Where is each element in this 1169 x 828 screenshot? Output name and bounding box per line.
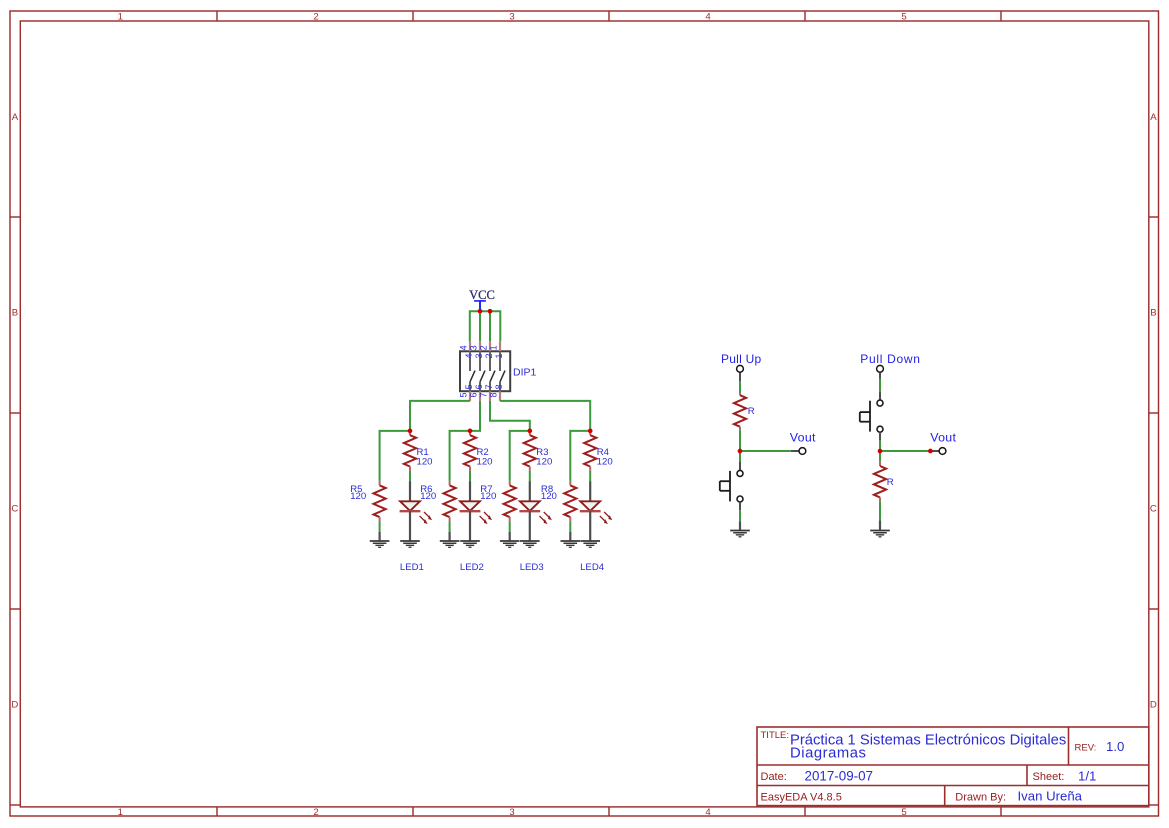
svg-text:5: 5 xyxy=(459,392,469,397)
junction node4 xyxy=(588,429,593,434)
wire R4 to LED4 xyxy=(589,471,591,481)
wire R1 to LED1 xyxy=(409,471,411,481)
push button (pull-down) xyxy=(860,400,883,432)
DIP1 pin numbers top (4 3 2 1) xyxy=(459,345,504,358)
wire pin6 to node2 xyxy=(450,401,480,481)
ground R7 xyxy=(509,532,511,541)
terminal pin Pull Up xyxy=(737,365,744,381)
svg-text:DIP1: DIP1 xyxy=(513,367,537,379)
svg-text:1: 1 xyxy=(118,12,123,23)
svg-text:2: 2 xyxy=(479,345,489,350)
svg-text:3: 3 xyxy=(509,807,514,818)
wire node3 to R7 xyxy=(510,431,530,481)
wire node1 to R5 xyxy=(380,431,410,481)
label R6 value 120 xyxy=(420,484,436,502)
push button (pull-up) xyxy=(720,470,743,502)
power flag VCC xyxy=(469,288,495,311)
svg-text:1: 1 xyxy=(489,345,499,350)
svg-text:2: 2 xyxy=(313,807,318,818)
wire Vout (pull-up) xyxy=(740,450,791,452)
ground R8 xyxy=(569,532,571,541)
terminal pin Pull Down xyxy=(877,365,884,378)
svg-text:5: 5 xyxy=(901,807,906,818)
ground LED2 xyxy=(460,540,480,542)
svg-text:C: C xyxy=(1150,504,1157,515)
ground (pull-down) xyxy=(879,520,881,530)
wire button to ground (pull-up) xyxy=(739,502,741,521)
wire R3 to LED3 xyxy=(529,471,531,481)
svg-text:7: 7 xyxy=(484,384,494,389)
svg-text:A: A xyxy=(1150,112,1157,123)
wire R6 to ground xyxy=(449,521,451,531)
resistor R (pull-down) xyxy=(874,461,886,501)
svg-text:120: 120 xyxy=(480,491,496,502)
svg-text:120: 120 xyxy=(417,457,433,468)
wire R5 to ground xyxy=(379,521,381,531)
resistor R8 xyxy=(564,481,576,521)
svg-text:VCC: VCC xyxy=(469,288,495,302)
resistor R4 xyxy=(584,431,596,471)
junction VCC bus B xyxy=(488,309,493,314)
wire VCC drop pin1 xyxy=(499,310,501,341)
svg-text:120: 120 xyxy=(597,457,613,468)
LED LED2 xyxy=(460,481,493,541)
junction VCC bus A xyxy=(478,309,483,314)
label R1 value 120 xyxy=(417,447,433,468)
wire pin5 to node1 xyxy=(410,401,470,431)
svg-text:Vout: Vout xyxy=(930,430,956,444)
label R7 value 120 xyxy=(480,484,496,502)
resistor R (pull-up) xyxy=(734,393,746,431)
svg-text:6: 6 xyxy=(474,384,484,389)
LED LED4 xyxy=(580,481,613,541)
wire R2 to LED2 xyxy=(469,471,471,481)
svg-text:Vout: Vout xyxy=(790,430,816,444)
svg-text:B: B xyxy=(12,308,18,319)
label R8 value 120 xyxy=(541,484,557,502)
svg-text:8: 8 xyxy=(489,392,499,397)
terminal pin Vout (pull-up) xyxy=(791,448,806,455)
svg-text:Pull Up: Pull Up xyxy=(721,352,762,366)
wire R to Vout node xyxy=(739,430,741,451)
svg-text:Date:: Date: xyxy=(761,771,787,783)
junction Vout node (pull-down) xyxy=(878,449,883,454)
svg-text:4: 4 xyxy=(705,12,711,23)
svg-text:R: R xyxy=(748,406,755,417)
wire node to button (pull-up) xyxy=(739,453,741,470)
svg-text:EasyEDA V4.8.5: EasyEDA V4.8.5 xyxy=(761,792,842,804)
svg-text:4: 4 xyxy=(705,807,711,818)
svg-text:2: 2 xyxy=(313,12,318,23)
svg-text:LED2: LED2 xyxy=(460,562,484,573)
resistor R5 xyxy=(374,481,386,521)
junction Vout node (pull-up) xyxy=(738,449,743,454)
DIP1 pin numbers bottom (5 6 7 8) xyxy=(459,384,504,397)
label R4 value 120 xyxy=(597,447,613,468)
wire Vout (pull-down) xyxy=(880,450,930,452)
svg-text:4: 4 xyxy=(464,353,474,358)
svg-text:Ivan Ureña: Ivan Ureña xyxy=(1018,789,1083,804)
ground LED1 xyxy=(400,540,420,542)
resistor R6 xyxy=(444,481,456,521)
junction node1 xyxy=(408,429,413,434)
svg-text:2: 2 xyxy=(484,353,494,358)
dip switch DIP1 xyxy=(460,341,510,401)
svg-text:B: B xyxy=(1150,308,1156,319)
svg-text:Drawn By:: Drawn By: xyxy=(955,792,1006,804)
svg-text:LED1: LED1 xyxy=(400,562,424,573)
svg-text:3: 3 xyxy=(474,353,484,358)
wire Pull Down to button xyxy=(879,379,881,400)
svg-text:REV:: REV: xyxy=(1075,743,1097,754)
ground (pull-up) xyxy=(739,521,741,530)
label R5 value 120 xyxy=(350,484,366,502)
ground R6 xyxy=(449,532,451,541)
svg-text:Pull Down: Pull Down xyxy=(860,352,920,366)
svg-text:C: C xyxy=(11,504,18,515)
resistor R2 xyxy=(464,431,476,471)
wire node4 to R8 xyxy=(570,431,590,481)
LED LED3 xyxy=(519,481,552,541)
label R3 value 120 xyxy=(536,447,552,468)
wire node to R (pull-down) xyxy=(879,453,881,461)
svg-text:120: 120 xyxy=(541,491,557,502)
wire R7 to ground xyxy=(509,521,511,531)
svg-text:3: 3 xyxy=(509,12,514,23)
svg-text:4: 4 xyxy=(459,345,469,350)
svg-text:R: R xyxy=(887,477,894,488)
svg-text:1: 1 xyxy=(118,807,123,818)
wire pin8 to node4 xyxy=(500,401,590,431)
LED LED1 xyxy=(400,481,433,541)
svg-text:5: 5 xyxy=(901,12,906,23)
wire VCC drop pin2 xyxy=(489,311,491,341)
svg-text:6: 6 xyxy=(469,392,479,397)
svg-text:7: 7 xyxy=(479,392,489,397)
svg-text:120: 120 xyxy=(477,457,493,468)
svg-text:1.0: 1.0 xyxy=(1106,739,1124,754)
wire R8 to ground xyxy=(569,521,571,531)
svg-text:Sheet:: Sheet: xyxy=(1033,771,1065,783)
svg-text:D: D xyxy=(11,699,18,710)
svg-text:3: 3 xyxy=(469,345,479,350)
svg-text:1/1: 1/1 xyxy=(1078,768,1096,783)
wire Pull Up to R xyxy=(739,381,741,392)
svg-text:LED4: LED4 xyxy=(580,562,605,573)
resistor R7 xyxy=(504,481,516,521)
svg-text:TITLE:: TITLE: xyxy=(761,730,790,741)
svg-text:2017-09-07: 2017-09-07 xyxy=(805,768,874,783)
svg-text:A: A xyxy=(12,112,19,123)
ground R5 xyxy=(379,532,381,541)
junction Vout pin (pull-down) xyxy=(928,449,933,454)
terminal pin Vout (pull-down) xyxy=(932,448,946,455)
wire R to ground (pull-down) xyxy=(879,501,881,520)
label R2 value 120 xyxy=(477,447,493,468)
wire button to Vout node (pull-down) xyxy=(879,432,881,449)
resistor R3 xyxy=(524,431,536,471)
junction node3 xyxy=(527,429,532,434)
svg-text:120: 120 xyxy=(536,457,552,468)
resistor R1 xyxy=(404,431,416,471)
wire VCC drop pin4 xyxy=(469,310,471,341)
ground LED4 xyxy=(580,540,600,542)
ground LED3 xyxy=(520,540,540,542)
svg-text:120: 120 xyxy=(350,491,366,502)
svg-text:D: D xyxy=(1150,699,1157,710)
wire VCC bus xyxy=(470,310,501,312)
svg-text:8: 8 xyxy=(494,384,504,389)
svg-text:Diagramas: Diagramas xyxy=(790,746,867,762)
svg-text:LED3: LED3 xyxy=(520,562,544,573)
junction node2 xyxy=(468,429,473,434)
svg-text:5: 5 xyxy=(464,384,474,389)
svg-text:120: 120 xyxy=(420,491,436,502)
wire pin7 to node3 xyxy=(490,401,530,431)
wire VCC drop pin3 xyxy=(479,311,481,341)
svg-text:1: 1 xyxy=(494,353,504,358)
